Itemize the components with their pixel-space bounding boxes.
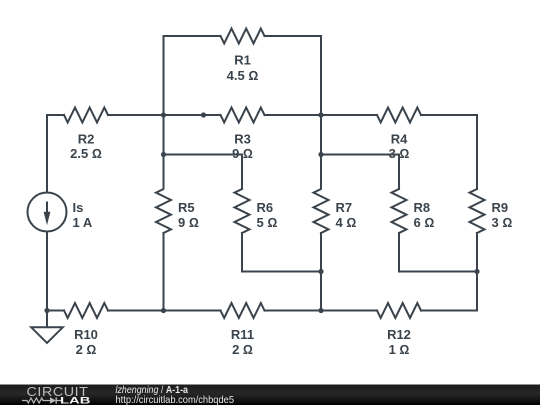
- svg-text:R6: R6: [257, 200, 274, 215]
- current source Is: [28, 193, 67, 232]
- svg-text:5 Ω: 5 Ω: [257, 215, 278, 230]
- svg-text:2 Ω: 2 Ω: [232, 342, 253, 357]
- wire rail1 R4 to right corner down to R9: [421, 115, 477, 189]
- wire bottom rail left segment: [47, 310, 64, 312]
- wire bottom rail R11 to R12: [265, 310, 378, 312]
- svg-text:R5: R5: [178, 200, 195, 215]
- node junction at (163.5,154.5): [161, 152, 166, 157]
- svg-text:4 Ω: 4 Ω: [336, 215, 357, 230]
- wire top loop: left vertical, top rail, right vertical: [164, 36, 221, 115]
- node junction at (163.5,115): [161, 112, 166, 117]
- svg-text:6 Ω: 6 Ω: [414, 215, 435, 230]
- footer bar: [0, 385, 540, 405]
- node junction at (321,115): [318, 112, 323, 117]
- node junction at (47,310.5): [44, 308, 49, 313]
- logo resistor squiggle and diode: [22, 398, 50, 403]
- svg-text:1 A: 1 A: [73, 215, 93, 230]
- svg-text:R8: R8: [414, 200, 431, 215]
- node junction at (321,271.5): [318, 269, 323, 274]
- wire bottom rail R10 to R11: [108, 310, 221, 312]
- wire bottom rail R12 to right corner: [421, 310, 477, 312]
- svg-text:R4: R4: [391, 132, 408, 147]
- svg-text:LAB: LAB: [60, 396, 91, 405]
- svg-text:R9: R9: [492, 200, 509, 215]
- svg-text:R10: R10: [74, 327, 98, 342]
- wire rail2 right: R7 column to R8 top: [321, 155, 399, 190]
- svg-text:R12: R12: [387, 327, 411, 342]
- resistor R3: [221, 108, 265, 123]
- svg-text:R11: R11: [231, 327, 254, 342]
- svg-text:R2: R2: [78, 132, 95, 147]
- resistor R9: [470, 189, 485, 311]
- resistor R1: [221, 29, 265, 44]
- svg-text:9 Ω: 9 Ω: [178, 215, 199, 230]
- resistor R11: [221, 303, 265, 318]
- svg-text:R7: R7: [336, 200, 353, 215]
- resistor R8: [392, 189, 478, 272]
- resistor R6: [235, 189, 322, 272]
- resistor R2: [64, 108, 108, 123]
- wire left column: rail1 corner down to current source: [46, 115, 48, 193]
- node junction at (163.5,310.5): [161, 308, 166, 313]
- svg-text:1 Ω: 1 Ω: [389, 342, 410, 357]
- svg-text:http://circuitlab.com/chbqde5: http://circuitlab.com/chbqde5: [116, 394, 235, 405]
- svg-text:2 Ω: 2 Ω: [76, 342, 97, 357]
- wire rail1 R3 to R4: [265, 114, 378, 116]
- svg-text:R1: R1: [234, 53, 251, 68]
- resistor R4: [377, 108, 421, 123]
- svg-text:2.5 Ω: 2.5 Ω: [70, 146, 102, 161]
- node junction at (203.5,115): [201, 112, 206, 117]
- resistor R10: [64, 303, 108, 318]
- svg-text:4.5 Ω: 4.5 Ω: [227, 68, 259, 83]
- resistor R7: [314, 115, 329, 311]
- resistor R5: [156, 115, 171, 311]
- node junction at (321,154.5): [318, 152, 323, 157]
- node junction at (321,310.5): [318, 308, 323, 313]
- svg-text:Is: Is: [73, 200, 84, 215]
- wire rail1 left segment: [47, 114, 64, 116]
- svg-text:R3: R3: [234, 132, 251, 147]
- wire rail1 R2 to R3: [108, 114, 221, 116]
- svg-text:3 Ω: 3 Ω: [492, 215, 513, 230]
- resistor R12: [377, 303, 421, 318]
- wire rail2 left: R5 column to R6 top: [164, 155, 243, 190]
- wire current source to bottom rail: [46, 232, 48, 311]
- node junction at (477,271.5): [474, 269, 479, 274]
- ground: [31, 311, 63, 344]
